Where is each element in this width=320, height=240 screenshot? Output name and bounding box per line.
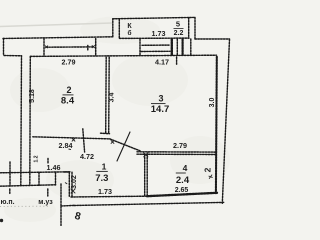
svg-text:м.уз: м.уз xyxy=(38,199,53,206)
svg-text:7.3: 7.3 xyxy=(95,173,108,184)
svg-text:5: 5 xyxy=(176,20,180,29)
svg-text:4: 4 xyxy=(183,163,188,173)
svg-text:1.73: 1.73 xyxy=(98,187,112,196)
svg-text:1.2: 1.2 xyxy=(34,155,40,162)
svg-text:2.4: 2.4 xyxy=(176,175,190,186)
svg-text:2.79: 2.79 xyxy=(173,141,187,150)
svg-text:3.4: 3.4 xyxy=(109,93,116,103)
svg-text:2.84: 2.84 xyxy=(59,141,73,150)
svg-text:8.4: 8.4 xyxy=(61,96,75,107)
svg-text:К: К xyxy=(127,23,132,30)
svg-text:4.17: 4.17 xyxy=(155,58,169,67)
svg-text:5.18: 5.18 xyxy=(29,89,36,103)
svg-text:ю.п.: ю.п. xyxy=(0,199,14,206)
svg-text:1: 1 xyxy=(102,162,107,172)
svg-text:2: 2 xyxy=(66,85,71,95)
svg-text:б: б xyxy=(127,29,131,37)
svg-text:2.79: 2.79 xyxy=(62,57,76,66)
svg-text:4.72: 4.72 xyxy=(80,152,94,161)
svg-text:3: 3 xyxy=(158,94,163,104)
svg-text:2: 2 xyxy=(203,167,213,172)
svg-text:3.0: 3.0 xyxy=(209,98,216,108)
svg-text:1.46: 1.46 xyxy=(47,163,61,172)
svg-text:14.7: 14.7 xyxy=(151,104,170,115)
svg-text:2.65: 2.65 xyxy=(175,187,189,194)
svg-text:2.2: 2.2 xyxy=(174,30,184,37)
svg-text:1.73: 1.73 xyxy=(152,29,166,38)
svg-text:3.02: 3.02 xyxy=(71,175,78,189)
